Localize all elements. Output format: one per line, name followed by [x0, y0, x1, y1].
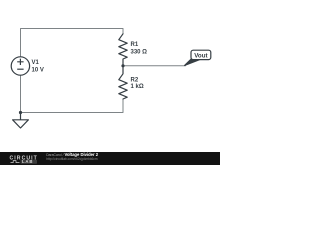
- svg-text:330 Ω: 330 Ω: [131, 50, 148, 56]
- node junction R1-R2: [121, 64, 124, 67]
- svg-text:10 V: 10 V: [32, 67, 44, 73]
- svg-text:R1: R1: [131, 42, 139, 48]
- resistor R1: [119, 34, 127, 66]
- footer bar: [0, 152, 220, 165]
- svg-text:1 kΩ: 1 kΩ: [131, 84, 144, 90]
- ground: [13, 113, 29, 129]
- wire left lower: [20, 75, 22, 112]
- voltage source V1: [11, 57, 29, 75]
- Vout flag tail: [184, 59, 199, 66]
- wire bottom rail: [21, 99, 124, 113]
- Vout flag box: [191, 50, 211, 59]
- svg-text:R2: R2: [131, 77, 139, 83]
- svg-text:V1: V1: [32, 60, 40, 66]
- wire output to Vout: [123, 65, 186, 67]
- resistor R2: [119, 66, 127, 99]
- wire top rail: [21, 29, 124, 57]
- logo LAB background box: [21, 160, 38, 164]
- svg-text:Vout: Vout: [194, 53, 207, 60]
- logo waveform glyph: [11, 161, 20, 163]
- svg-text:http://circuitlab.com/c62cjp4m: http://circuitlab.com/c62cjp4mbk6cm: [46, 157, 98, 161]
- node junction ground: [19, 111, 22, 114]
- svg-text:LAB: LAB: [22, 159, 33, 164]
